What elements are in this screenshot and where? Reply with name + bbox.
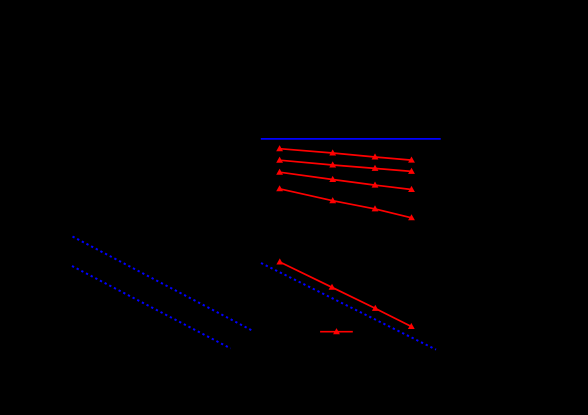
markers line 1 [276,145,283,151]
red data line 1 [280,149,412,160]
markers line 5 [276,258,283,264]
red data line 3 [280,172,412,189]
markers line 2 [276,157,283,163]
markers line 4 [276,185,283,191]
blue solid reference line (top) [261,138,441,140]
blue dotted reference line lower-left [72,266,231,348]
red data line 4 [280,189,412,218]
legend sample marker [333,328,340,334]
blue dotted reference line upper-left [73,237,254,332]
red data line 2 [280,160,412,171]
markers line 3 [276,169,283,175]
red data line 5 (bottom) [280,262,412,327]
blue dotted reference line lower-right [261,263,436,350]
legend sample line [320,331,353,333]
